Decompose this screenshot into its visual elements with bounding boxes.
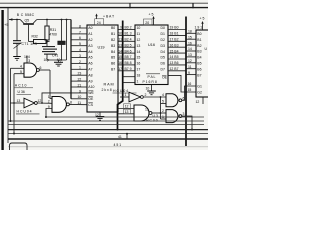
svg-text:4 5 1: 4 5 1	[114, 143, 122, 147]
bottom frame line	[8, 138, 208, 140]
ground symbol U16	[147, 91, 156, 95]
wire vertical distribution	[160, 97, 162, 119]
inverter U37 body	[24, 98, 35, 108]
net stub at 127	[126, 133, 128, 139]
svg-text:2: 2	[79, 60, 81, 64]
pin label 24 box	[95, 19, 104, 25]
bottom bus wire 1	[46, 116, 204, 118]
svg-text:A7: A7	[88, 68, 92, 72]
inverter U37 bubble	[35, 102, 38, 105]
svg-text:R A M: R A M	[104, 83, 114, 87]
svg-text:15: 15	[137, 56, 141, 60]
frame left inner edge	[7, 8, 9, 143]
svg-text:16: 16	[188, 41, 192, 45]
wire R31 bottom	[46, 40, 48, 42]
bottom bus wire 2	[8, 120, 204, 122]
inverter U37 input wire	[10, 102, 24, 104]
bottom bus wire 5	[8, 133, 208, 135]
svg-text:B0: B0	[111, 26, 115, 30]
svg-text:A1: A1	[88, 32, 92, 36]
nand gate U36 bubble	[36, 69, 39, 72]
node bus end junction	[13, 133, 15, 135]
IC U21 box (cut off)	[196, 30, 210, 97]
svg-text:13: 13	[17, 99, 21, 103]
svg-text:15: 15	[188, 35, 192, 39]
nand gate U42 bubble	[179, 115, 182, 118]
svg-text:B C 558C: B C 558C	[17, 13, 35, 17]
svg-text:11: 11	[78, 101, 82, 105]
svg-text:13: 13	[125, 110, 129, 114]
data bus 2 vertical	[185, 17, 187, 147]
svg-text:A0: A0	[88, 26, 92, 30]
svg-text:OE: OE	[88, 97, 94, 101]
svg-text:H C U 0 4: H C U 0 4	[17, 110, 32, 114]
svg-text:B1: B1	[197, 38, 201, 42]
node inverter output branch	[41, 102, 43, 104]
bottom faint line	[8, 146, 208, 148]
svg-text:+ 5: + 5	[200, 17, 205, 21]
svg-text:B5 7: B5 7	[125, 55, 132, 59]
pin label 20	[144, 19, 153, 25]
svg-text:18 B1: 18 B1	[170, 32, 179, 36]
wire ground bar horizontal	[47, 59, 67, 61]
svg-text:7: 7	[79, 30, 81, 34]
inverter U40 body	[129, 92, 141, 102]
svg-text:D0: D0	[161, 26, 165, 30]
svg-text:9: 9	[79, 89, 81, 93]
frame left outer edge	[1, 10, 3, 150]
wire collector down	[28, 24, 30, 42]
svg-text:B3: B3	[197, 50, 201, 54]
inverter U40 bubble	[141, 96, 144, 99]
svg-text:D5: D5	[161, 56, 165, 60]
svg-text:R32: R32	[32, 35, 38, 39]
nand gate U38 body	[52, 97, 66, 113]
wire inverter U40 output to nand pin4	[143, 96, 166, 98]
svg-text:5: 5	[20, 70, 22, 74]
wire U38 pin3 from below	[46, 109, 52, 118]
svg-text:B5: B5	[197, 62, 201, 66]
svg-text:B3: B3	[111, 44, 115, 48]
nand gate U41 bubble	[179, 99, 182, 102]
node bus1 bottom	[117, 129, 119, 131]
svg-text:H C 1 0: H C 1 0	[15, 84, 27, 88]
svg-text:D1: D1	[161, 32, 165, 36]
svg-text:3: 3	[79, 54, 81, 58]
wire U41 output	[182, 86, 196, 100]
wire U3 output	[152, 112, 161, 114]
svg-text:B7: B7	[111, 68, 115, 72]
trimmer capacitor CT1 plates	[13, 41, 22, 49]
svg-text:WE: WE	[88, 91, 94, 95]
svg-text:14: 14	[188, 47, 192, 51]
svg-text:6: 6	[79, 36, 81, 40]
svg-text:17: 17	[118, 67, 122, 71]
svg-text:+ 5: + 5	[149, 13, 154, 17]
svg-text:11: 11	[137, 32, 141, 36]
svg-text:14: 14	[137, 50, 141, 54]
svg-text:Q5: Q5	[25, 19, 30, 23]
U16 OE wire	[168, 75, 196, 92]
svg-text:1 9 1: 1 9 1	[195, 25, 203, 29]
svg-text:41: 41	[118, 135, 122, 139]
svg-text:16 B3: 16 B3	[170, 43, 179, 47]
wire branch up to WE	[42, 93, 87, 103]
svg-text:15 B4: 15 B4	[170, 49, 179, 53]
svg-text:U 3: U 3	[153, 114, 158, 118]
svg-text:A4: A4	[88, 50, 92, 54]
svg-text:12: 12	[137, 38, 141, 42]
node distribution top	[160, 96, 162, 98]
svg-text:16: 16	[188, 82, 192, 86]
U19 left pin numbers	[78, 24, 82, 105]
svg-text:CS: CS	[88, 103, 93, 107]
svg-text:A8: A8	[88, 73, 92, 77]
wire CT1 to ground	[16, 43, 18, 56]
U21 wire pin numbers	[188, 30, 192, 75]
svg-text:1: 1	[79, 66, 81, 70]
node junction rail R31	[46, 19, 48, 21]
svg-text:13 B6: 13 B6	[170, 61, 179, 65]
U21 bottom stub	[202, 97, 204, 104]
svg-text:14 B5: 14 B5	[170, 55, 179, 59]
svg-text:D7: D7	[161, 68, 165, 72]
U21 pin 19 stub	[202, 22, 204, 30]
svg-text:9: 9	[188, 71, 190, 75]
node inverter input junction	[13, 102, 15, 104]
svg-text:4: 4	[162, 93, 164, 97]
nand gate U42 body	[166, 110, 178, 123]
svg-text:13: 13	[118, 43, 122, 47]
wires bus2 to U21	[186, 33, 196, 74]
svg-text:B4: B4	[111, 50, 115, 54]
connector bottom left	[10, 143, 28, 150]
svg-text:P A L: P A L	[148, 75, 156, 79]
address bus vertical left of U19	[70, 20, 72, 99]
bottom bus wire 3	[8, 124, 204, 126]
wire R32 right to node	[46, 41, 50, 43]
wire second cap drop	[66, 20, 68, 61]
U19 left pin names	[88, 26, 94, 107]
U16 OE label	[162, 75, 168, 79]
svg-text:A3: A3	[88, 44, 92, 48]
svg-text:B1 3: B1 3	[125, 32, 132, 36]
svg-text:11: 11	[145, 108, 149, 112]
svg-text:1: 1	[48, 95, 50, 99]
svg-text:16: 16	[118, 61, 122, 65]
IC U16 PAL box	[135, 25, 168, 85]
svg-text:B3 5: B3 5	[125, 43, 132, 47]
svg-text:D2: D2	[161, 38, 165, 42]
U16 pin 20 stub	[153, 17, 155, 25]
nand gate U41 body	[166, 94, 178, 107]
frame tick mark 2	[192, 3, 194, 8]
svg-text:1: 1	[137, 79, 139, 83]
label HCU04 left	[16, 110, 40, 114]
svg-text:18: 18	[188, 30, 192, 34]
transistor Q1 body	[21, 20, 37, 24]
pin label 12 box	[124, 104, 131, 109]
wire HC10 output down to pin1	[50, 70, 52, 99]
svg-text:12: 12	[125, 105, 129, 109]
svg-text:10: 10	[78, 95, 82, 99]
wire inverter output to nand pin2	[37, 102, 52, 104]
U19 pin 24 arrowhead	[95, 14, 97, 17]
frame top line 2	[0, 7, 208, 9]
svg-text:D3: D3	[161, 44, 165, 48]
resistor R32	[34, 40, 47, 44]
svg-text:17 B2: 17 B2	[170, 38, 179, 42]
wire node to cap stack	[46, 42, 48, 47]
label U36	[17, 90, 32, 94]
inverter U40 input wire	[120, 96, 129, 98]
svg-text:4: 4	[20, 65, 22, 69]
ground symbol U19	[96, 117, 105, 121]
svg-text:12: 12	[38, 99, 42, 103]
nand gate U36 input wire pin3 top	[26, 56, 28, 64]
svg-text:D6: D6	[161, 62, 165, 66]
svg-text:5: 5	[79, 42, 81, 46]
U16 left inside pin numbers	[137, 26, 141, 83]
net labels B0-B7 + pin	[125, 26, 132, 71]
U19 overlines WE OE CS	[88, 91, 93, 103]
nand gate U3 input wires	[118, 109, 135, 114]
svg-text:+ B A T: + B A T	[103, 14, 115, 18]
U16 right wires to bus2	[168, 30, 186, 71]
wire U36 output	[39, 69, 50, 71]
nand gate U41 input stubs	[161, 104, 167, 120]
svg-text:9: 9	[48, 105, 50, 109]
trimmer capacitor CT1 wire	[16, 20, 18, 41]
frame tick mark 1	[129, 3, 131, 8]
svg-text:16: 16	[137, 62, 141, 66]
svg-text:OE: OE	[162, 76, 168, 80]
wire U38 output to CS	[69, 103, 87, 105]
U19 pin 24 stub	[96, 15, 98, 20]
svg-text:U16: U16	[148, 43, 155, 47]
svg-text:24: 24	[97, 21, 101, 25]
U16 +5 arrowhead	[152, 16, 154, 19]
svg-text:B0 2: B0 2	[125, 26, 132, 30]
svg-text:D4: D4	[161, 50, 165, 54]
U21 left pin names	[197, 32, 202, 94]
svg-text:8: 8	[79, 24, 81, 28]
U19 right pin names B0-B7	[111, 26, 115, 71]
svg-text:B6 8: B6 8	[125, 61, 132, 65]
svg-text:13: 13	[137, 44, 141, 48]
svg-text:1: 1	[125, 93, 127, 97]
wires bus1 to U16 with net labels	[123, 30, 135, 83]
svg-text:B2: B2	[197, 44, 201, 48]
U16 right pin numbers and nets	[170, 26, 179, 71]
ground symbol left	[13, 57, 21, 61]
svg-text:10: 10	[118, 32, 122, 36]
svg-text:A9: A9	[88, 79, 92, 83]
bottom bus wire 4	[8, 129, 208, 131]
svg-text:P 1 6 R 8: P 1 6 R 8	[143, 80, 157, 84]
svg-text:3: 3	[28, 59, 30, 63]
wire R32 left	[29, 41, 34, 43]
svg-text:2: 2	[48, 100, 50, 104]
svg-text:12: 12	[196, 100, 200, 104]
crystal X1 body	[58, 41, 66, 45]
svg-text:B1: B1	[111, 32, 115, 36]
svg-text:2 k x 8: 2 k x 8	[102, 88, 112, 92]
nand gate U36 body	[24, 63, 37, 77]
svg-text:15: 15	[118, 55, 122, 59]
svg-text:B2 4: B2 4	[125, 38, 132, 42]
nand gate U3 body	[134, 105, 149, 121]
svg-text:10: 10	[137, 26, 141, 30]
svg-text:B5: B5	[111, 56, 115, 60]
wire rail y19.5	[37, 19, 72, 21]
svg-text:B4: B4	[197, 56, 201, 60]
label HC10	[15, 84, 34, 88]
svg-text:3: 3	[183, 112, 185, 116]
U16 ground stub pin10	[151, 85, 153, 92]
svg-text:21: 21	[78, 83, 82, 87]
U19 ground stub	[99, 112, 101, 117]
svg-text:H C U 0 4: H C U 0 4	[113, 89, 128, 93]
svg-text:C41: C41	[52, 53, 58, 57]
svg-text:8: 8	[70, 100, 72, 104]
node U42 out bus	[191, 129, 193, 131]
wire cap stack to ground node	[46, 54, 48, 60]
nand gate U36 input wire pin5	[14, 73, 24, 75]
nand gate U3 bubble	[149, 112, 152, 115]
IC U19 RAM box	[87, 25, 118, 112]
wire R31 top	[46, 20, 48, 27]
svg-text:A6: A6	[88, 62, 92, 66]
capacitor stack C41	[42, 47, 57, 55]
crystal X1 wire top	[61, 20, 63, 42]
svg-text:B7 9: B7 9	[125, 67, 132, 71]
svg-text:6: 6	[40, 66, 42, 70]
svg-text:17: 17	[137, 68, 141, 72]
U19 left pin stubs A0-A10 WE OE	[71, 28, 87, 99]
svg-text:B6: B6	[197, 67, 201, 71]
svg-text:4700: 4700	[49, 33, 57, 37]
svg-text:11: 11	[118, 38, 122, 42]
node U3 out	[160, 112, 162, 114]
U16 PAL label	[143, 74, 161, 84]
svg-text:22: 22	[78, 78, 82, 82]
svg-text:G2: G2	[197, 90, 202, 94]
svg-text:B4 6: B4 6	[125, 49, 132, 53]
svg-text:A10: A10	[88, 85, 94, 89]
svg-text:G1: G1	[197, 84, 202, 88]
svg-text:20: 20	[145, 21, 149, 25]
svg-text:A5: A5	[88, 56, 92, 60]
wire +5 arrow to rail	[9, 18, 21, 21]
svg-text:19 B0: 19 B0	[170, 26, 179, 30]
svg-text:23: 23	[78, 72, 82, 76]
wire U42 output	[182, 116, 192, 129]
U19 right pin numbers	[118, 26, 122, 71]
U21 +5 arrowhead	[201, 21, 203, 24]
svg-text:R31: R31	[50, 28, 56, 32]
node rail cap	[66, 19, 68, 21]
svg-text:CT1 1K5: CT1 1K5	[22, 42, 38, 46]
svg-text:13: 13	[188, 53, 192, 57]
node rail crystal	[61, 19, 63, 21]
svg-text:12: 12	[188, 59, 192, 63]
svg-text:18: 18	[137, 73, 141, 77]
svg-text:B2: B2	[111, 38, 115, 42]
svg-text:4: 4	[79, 48, 81, 52]
svg-text:14: 14	[118, 49, 122, 53]
label HCU04 right	[113, 89, 137, 93]
node junction at base rail	[16, 19, 18, 21]
svg-text:15: 15	[188, 88, 192, 92]
nand gate U36 input wire pin4	[11, 67, 25, 69]
svg-text:12 B7: 12 B7	[170, 67, 179, 71]
svg-text:+5: +5	[4, 23, 8, 27]
svg-text:11: 11	[188, 65, 192, 69]
frame top line 1	[0, 2, 208, 4]
svg-text:2: 2	[145, 93, 147, 97]
svg-text:A2: A2	[88, 38, 92, 42]
wire vertical x14 net	[13, 74, 15, 134]
data bus 1 vertical	[118, 21, 123, 130]
node x46	[45, 116, 47, 118]
svg-text:B0: B0	[197, 32, 201, 36]
nand gate U38 bubble	[66, 103, 69, 106]
ground symbol crystal	[54, 60, 63, 66]
svg-text:10: 10	[146, 87, 150, 91]
svg-text:H C 0 0: H C 0 0	[146, 119, 158, 123]
U19 right pin stubs	[118, 30, 123, 71]
node bus1 tap	[122, 96, 124, 98]
svg-text:5: 5	[162, 100, 164, 104]
svg-text:B7: B7	[197, 73, 201, 77]
node junction R31/R32	[46, 41, 48, 43]
svg-text:B6: B6	[111, 62, 115, 66]
U16 right pin names D0-D7	[161, 26, 165, 71]
node x10.5 bus junction	[10, 120, 12, 122]
svg-text:U19: U19	[98, 46, 105, 50]
resistor R31	[45, 26, 49, 40]
wire vertical x10.5 net	[10, 68, 12, 121]
crystal X1 wire bottom	[61, 45, 63, 60]
svg-text:U 36: U 36	[18, 90, 25, 94]
svg-text:2: 2	[162, 109, 164, 113]
svg-text:9: 9	[120, 26, 122, 30]
pin label 13 box	[124, 109, 131, 114]
